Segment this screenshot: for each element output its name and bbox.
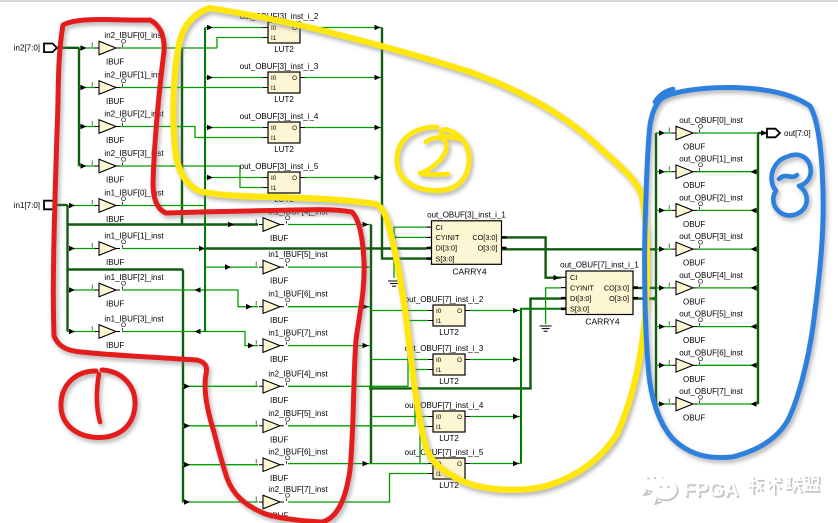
junction arr V4 <box>184 423 190 429</box>
wire in1[6] out <box>288 306 371 308</box>
svg-text:I0: I0 <box>436 308 442 315</box>
junction arr t205 a <box>195 287 201 293</box>
svg-text:I: I <box>91 42 93 49</box>
wire V4 stub <box>182 464 258 466</box>
buffer in1_IBUF[5]_inst <box>255 250 328 286</box>
input port in2[7:0] <box>14 44 57 53</box>
svg-text:IBUF: IBUF <box>106 300 124 309</box>
wire out out_OBUF[3]_inst_i_4 <box>305 127 382 129</box>
LUT2 out_OBUF[3]_inst_i_4 <box>240 112 319 154</box>
svg-text:out_OBUF[7]_inst_i_5: out_OBUF[7]_inst_i_5 <box>405 448 484 457</box>
svg-text:I1: I1 <box>271 35 277 42</box>
wire stub to in2_IBUF[0]_inst <box>79 47 96 49</box>
wire OBUF out wire <box>697 364 758 366</box>
junction arr in1_IBUF[0]_inst <box>69 203 75 209</box>
svg-text:I0: I0 <box>436 414 442 421</box>
svg-text:O: O <box>457 308 462 315</box>
junction arr in1_IBUF[2]_inst <box>69 287 75 293</box>
svg-text:out_OBUF[0]_inst: out_OBUF[0]_inst <box>679 116 743 125</box>
junction arr obuf in <box>659 169 665 175</box>
buffer in1_IBUF[4]_inst <box>255 208 328 244</box>
svg-text:IBUF: IBUF <box>106 176 124 185</box>
wire in1[6] feed jog <box>122 290 258 307</box>
junction arr lutout <box>375 175 381 181</box>
wire out out_OBUF[7]_inst_i_5 <box>470 463 521 465</box>
wire OBUF out wire <box>697 209 758 211</box>
svg-text:DI[3:0]: DI[3:0] <box>570 294 592 303</box>
svg-text:out_OBUF[7]_inst: out_OBUF[7]_inst <box>679 387 743 396</box>
wire O bus carry2 <box>633 297 656 299</box>
junction arr obuf out <box>751 169 757 175</box>
junction arr obuf in <box>659 246 665 252</box>
junction arr lutout <box>375 75 381 81</box>
buffer in2_IBUF[0]_inst <box>91 31 164 67</box>
svg-text:in2_IBUF[4]_inst: in2_IBUF[4]_inst <box>268 369 328 378</box>
svg-text:IBUF: IBUF <box>106 58 124 67</box>
wire OBUF in stub <box>656 364 672 366</box>
wire stub to in1_IBUF[0]_inst <box>68 205 97 207</box>
buffer out_OBUF[4]_inst <box>668 271 743 307</box>
svg-text:out_OBUF[5]_inst: out_OBUF[5]_inst <box>679 310 743 319</box>
wire stub to in1_IBUF[1]_inst <box>68 248 97 250</box>
svg-text:I: I <box>668 204 670 211</box>
svg-text:I0: I0 <box>436 357 442 364</box>
svg-text:OBUF: OBUF <box>683 259 705 268</box>
red annotation loop around IBUF groups <box>53 20 364 523</box>
junction arr V4 <box>184 462 190 468</box>
LUT2 out_OBUF[3]_inst_i_2 <box>240 12 319 54</box>
junction arr in1[5]feed <box>225 264 231 270</box>
wire V4 trunk lower <box>182 270 184 503</box>
svg-text:OBUF: OBUF <box>683 297 705 306</box>
junction arr obuf in <box>659 130 665 136</box>
wire VA trunk <box>370 225 372 464</box>
junction arr lutCout <box>513 308 519 314</box>
red circled 1 <box>61 370 135 438</box>
wire OBUF in stub <box>656 326 672 328</box>
buffer out_OBUF[3]_inst <box>668 232 743 268</box>
node dot O2 join <box>653 297 657 301</box>
wire OBUF in stub <box>656 209 672 211</box>
input port in1[7:0] <box>14 201 57 210</box>
wire stub to in1_IBUF[3]_inst <box>68 331 97 333</box>
svg-text:I0: I0 <box>271 175 277 182</box>
svg-text:OBUF: OBUF <box>683 375 705 384</box>
svg-text:I0: I0 <box>271 25 277 32</box>
wire CO to CI chain <box>502 237 562 277</box>
junction arr I0 <box>207 75 213 81</box>
svg-text:in1_IBUF[3]_inst: in1_IBUF[3]_inst <box>104 315 164 324</box>
blue annotation loop around OBUF column <box>645 87 824 457</box>
wire C3 I1 tap <box>420 427 428 464</box>
buffer out_OBUF[5]_inst <box>668 310 743 346</box>
svg-text:I: I <box>255 261 257 268</box>
buffer in1_IBUF[0]_inst <box>91 189 164 225</box>
wire CO carry2 <box>633 287 656 289</box>
svg-text:in2_IBUF[1]_inst: in2_IBUF[1]_inst <box>104 71 164 80</box>
svg-text:IBUF: IBUF <box>106 97 124 106</box>
red digit 1 <box>97 374 100 422</box>
svg-text:out_OBUF[1]_inst: out_OBUF[1]_inst <box>679 155 743 164</box>
svg-text:I: I <box>255 219 257 226</box>
wire in2[3] to LUT i_5 I1 <box>120 166 263 188</box>
wire OBUF out wire <box>697 403 758 405</box>
wire OBUF in stub <box>656 171 672 173</box>
wire DI bus carry2 <box>371 299 561 389</box>
junction arr obuf out <box>751 246 757 252</box>
svg-text:OBUF: OBUF <box>683 414 705 423</box>
svg-text:OBUF: OBUF <box>683 220 705 229</box>
junction arr in1[6]feed <box>246 304 252 310</box>
svg-text:CARRY4: CARRY4 <box>585 317 620 327</box>
junction arr I0 <box>207 25 213 31</box>
wire in2[7] out <box>288 474 428 503</box>
svg-text:I: I <box>668 359 670 366</box>
LUT2 out_OBUF[7]_inst_i_2 <box>405 295 484 337</box>
svg-text:I: I <box>668 127 670 134</box>
junction arr obuf out <box>751 285 757 291</box>
yellow digit 2 <box>420 138 448 175</box>
wire in2[1] to LUT i_3 I1 <box>120 87 263 89</box>
watermark text FPGA <box>683 479 740 503</box>
svg-text:LUT2: LUT2 <box>439 328 459 337</box>
svg-text:IBUF: IBUF <box>270 355 288 364</box>
svg-text:I0: I0 <box>271 125 277 132</box>
svg-text:LUT2: LUT2 <box>439 481 459 490</box>
wire I0 stub out_OBUF[3]_inst_i_5 <box>205 177 263 179</box>
svg-text:I: I <box>91 82 93 89</box>
wire stub to in2_IBUF[1]_inst <box>79 87 96 89</box>
svg-text:I1: I1 <box>271 135 277 142</box>
junction arr in2_IBUF[2]_inst <box>81 124 87 130</box>
junction arr lutout <box>375 25 381 31</box>
wire in2 trunk V1 <box>78 48 80 166</box>
svg-text:O: O <box>292 125 297 132</box>
svg-text:I: I <box>668 166 670 173</box>
wire OBUF out wire <box>697 248 758 250</box>
wire in1[1] out <box>122 248 205 250</box>
buffer out_OBUF[6]_inst <box>668 348 743 384</box>
svg-text:out_OBUF[3]_inst_i_1: out_OBUF[3]_inst_i_1 <box>427 210 506 219</box>
wire S trunk to CARRY4_2 <box>521 309 561 464</box>
wire V4 trunk upper <box>181 48 183 225</box>
wire I0 stub out_OBUF[3]_inst_i_4 <box>205 127 263 129</box>
node dot cyinit tap <box>392 236 396 240</box>
svg-text:DI[3:0]: DI[3:0] <box>436 244 458 253</box>
frame top border <box>0 0 838 2</box>
buffer in1_IBUF[3]_inst <box>91 315 164 351</box>
junction arr VA top <box>363 222 369 228</box>
buffer in2_IBUF[4]_inst <box>255 369 328 405</box>
svg-text:I: I <box>255 496 257 503</box>
wire out out_OBUF[7]_inst_i_4 <box>470 416 521 418</box>
svg-text:OBUF: OBUF <box>683 143 705 152</box>
svg-text:IBUF: IBUF <box>106 258 124 267</box>
wire stub to in1_IBUF[2]_inst <box>68 289 97 291</box>
junction arr in1[7]feed <box>248 343 254 349</box>
junction arr in1[4]feed <box>228 222 234 228</box>
wire CYINIT2 gnd <box>546 288 561 324</box>
junction arr obuf in <box>659 285 665 291</box>
svg-text:in2[7:0]: in2[7:0] <box>14 44 40 53</box>
svg-text:S[3:0]: S[3:0] <box>436 254 455 263</box>
svg-text:I: I <box>255 459 257 466</box>
wire in2 port to trunk <box>57 47 79 49</box>
svg-text:I1: I1 <box>436 318 442 325</box>
wire CI CYINIT gnd net <box>394 227 427 278</box>
wire CYINIT tap <box>394 236 427 238</box>
wire out out_OBUF[7]_inst_i_2 <box>470 310 521 312</box>
svg-text:I: I <box>668 398 670 405</box>
svg-text:IBUF: IBUF <box>270 316 288 325</box>
wire in2[5] out <box>288 370 428 426</box>
svg-text:I: I <box>668 243 670 250</box>
svg-text:IBUF: IBUF <box>270 234 288 243</box>
svg-text:out_OBUF[6]_inst: out_OBUF[6]_inst <box>679 348 743 357</box>
svg-text:IBUF: IBUF <box>106 215 124 224</box>
svg-text:O: O <box>457 414 462 421</box>
wire OBUF out trunk <box>757 133 759 404</box>
CARRY4 out_OBUF[3]_inst_i_1 <box>427 210 507 276</box>
junction arr in2_IBUF[3]_inst <box>81 163 87 169</box>
svg-text:out[7:0]: out[7:0] <box>784 129 811 138</box>
wire S trunk to CARRY4_1 <box>382 28 427 259</box>
wire I0 trunk <box>204 28 206 332</box>
wire VA to C2 I0 <box>371 359 428 361</box>
wire VA to C3 I0 <box>371 416 428 418</box>
junction arr VA r2 <box>363 264 369 270</box>
junction arr DI1 <box>199 246 205 252</box>
blue stroke start tail <box>655 89 673 102</box>
junction arr obuf in <box>659 363 665 369</box>
wire out out_OBUF[3]_inst_i_3 <box>305 77 382 79</box>
svg-text:out_OBUF[7]_inst_i_1: out_OBUF[7]_inst_i_1 <box>560 261 639 270</box>
junction arr VA r3 <box>363 304 369 310</box>
watermark hanzi strokes <box>750 478 765 494</box>
svg-text:LUT2: LUT2 <box>274 45 294 54</box>
wire in1[5] out <box>288 266 371 268</box>
junction arr in1_IBUF[3]_inst <box>69 329 75 335</box>
junction arr VA r4 <box>363 343 369 349</box>
buffer in2_IBUF[2]_inst <box>91 110 164 146</box>
junction arr obuf out <box>751 208 757 214</box>
wire in2[6] out <box>288 463 428 465</box>
junction arr port feed <box>761 130 767 136</box>
svg-text:CI: CI <box>570 273 577 282</box>
wire out out_OBUF[3]_inst_i_5 <box>305 177 382 179</box>
svg-text:in2_IBUF[0]_inst: in2_IBUF[0]_inst <box>104 31 164 40</box>
junction arr obuf in <box>659 324 665 330</box>
wire in1 port to trunk <box>57 204 68 206</box>
svg-text:out_OBUF[4]_inst: out_OBUF[4]_inst <box>679 271 743 280</box>
wire DI bus carry1 <box>205 247 427 249</box>
wire in1 trunk V2 <box>66 205 68 332</box>
svg-text:in1[7:0]: in1[7:0] <box>14 201 40 210</box>
wire OBUF out wire <box>697 326 758 328</box>
buffer in2_IBUF[1]_inst <box>91 71 164 107</box>
svg-text:O[3:0]: O[3:0] <box>609 294 629 303</box>
junction arr lutCout <box>513 357 519 363</box>
svg-text:IBUF: IBUF <box>270 474 288 483</box>
LUT2 out_OBUF[3]_inst_i_3 <box>240 62 319 104</box>
svg-text:in1_IBUF[2]_inst: in1_IBUF[2]_inst <box>104 273 164 282</box>
svg-text:I1: I1 <box>271 185 277 192</box>
svg-text:I: I <box>91 243 93 250</box>
svg-text:O: O <box>292 75 297 82</box>
svg-text:S[3:0]: S[3:0] <box>570 305 589 314</box>
junction arr V4 <box>184 499 190 505</box>
buffer in2_IBUF[3]_inst <box>91 149 164 185</box>
svg-text:LUT2: LUT2 <box>439 434 459 443</box>
svg-text:O: O <box>292 175 297 182</box>
blue squiggle 3 <box>772 155 811 216</box>
svg-text:in1_IBUF[1]_inst: in1_IBUF[1]_inst <box>104 232 164 241</box>
ground G2 <box>540 326 552 331</box>
svg-text:CI: CI <box>436 223 443 232</box>
svg-text:I1: I1 <box>436 424 442 431</box>
node dot DI2 join <box>369 387 373 391</box>
wire stub to in2_IBUF[3]_inst <box>79 165 96 167</box>
buffer in2_IBUF[6]_inst <box>255 448 328 484</box>
LUT2 out_OBUF[3]_inst_i_5 <box>240 162 319 204</box>
wire in2[0] out run <box>120 47 217 49</box>
wire OBUF in stub <box>656 248 672 250</box>
junction arr obuf in <box>659 208 665 214</box>
svg-text:in2_IBUF[7]_inst: in2_IBUF[7]_inst <box>268 485 328 494</box>
junction arr obuf out <box>751 401 757 407</box>
junction arr in2_IBUF[1]_inst <box>81 85 87 91</box>
buffer out_OBUF[1]_inst <box>668 155 743 191</box>
svg-text:IBUF: IBUF <box>270 277 288 286</box>
junction arr in2_IBUF[0]_inst <box>81 45 87 51</box>
svg-text:OBUF: OBUF <box>683 336 705 345</box>
svg-text:OBUF: OBUF <box>683 181 705 190</box>
wire V4 stub <box>182 501 258 503</box>
junction arr t205 b <box>195 329 201 335</box>
wire V4 stub <box>182 425 258 427</box>
wire in1[7] out <box>288 345 371 347</box>
svg-text:in1_IBUF[6]_inst: in1_IBUF[6]_inst <box>268 290 328 299</box>
wire out port wire <box>758 132 767 134</box>
svg-text:out_OBUF[3]_inst_i_5: out_OBUF[3]_inst_i_5 <box>240 162 319 171</box>
svg-text:IBUF: IBUF <box>270 435 288 444</box>
svg-text:I: I <box>91 326 93 333</box>
buffer in1_IBUF[6]_inst <box>255 290 328 326</box>
junction arr obuf in <box>659 401 665 407</box>
svg-text:I: I <box>91 200 93 207</box>
svg-text:I: I <box>255 340 257 347</box>
wire V4 stub <box>182 385 258 387</box>
junction arr in1_IBUF[1]_inst <box>69 246 75 252</box>
output port out[7:0] <box>767 129 811 138</box>
junction arr V4 <box>184 384 190 390</box>
junction arr I0 <box>207 175 213 181</box>
junction arr obuf out <box>751 324 757 330</box>
svg-text:out_OBUF[3]_inst: out_OBUF[3]_inst <box>679 232 743 241</box>
svg-text:out_OBUF[7]_inst_i_3: out_OBUF[7]_inst_i_3 <box>405 344 484 353</box>
wire in1[0] out <box>120 205 205 207</box>
yellow circled 2 <box>397 127 469 191</box>
wire OBUF out wire <box>697 171 758 173</box>
svg-text:out_OBUF[2]_inst: out_OBUF[2]_inst <box>679 193 743 202</box>
wire O bus carry1 <box>502 248 657 250</box>
wire OBUF in stub <box>656 132 672 134</box>
junction arr obuf out <box>751 363 757 369</box>
wire OBUF feed trunk <box>655 133 657 404</box>
junction arr O1 row <box>645 247 651 253</box>
wire out out_OBUF[3]_inst_i_2 <box>305 27 382 29</box>
junction arr CI2 <box>554 275 560 281</box>
watermark logo bubbles <box>642 472 678 504</box>
wire in1[5] feed <box>205 266 258 268</box>
buffer in1_IBUF[1]_inst <box>91 232 164 268</box>
junction arr lutCout <box>513 461 519 467</box>
buffer in2_IBUF[7]_inst <box>255 485 328 521</box>
wire in1[7] feed jog <box>122 332 258 346</box>
buffer out_OBUF[2]_inst <box>668 193 743 229</box>
buffer in1_IBUF[2]_inst <box>91 273 164 309</box>
junction arr lutCout <box>513 414 519 420</box>
wire I0 stub out_OBUF[3]_inst_i_3 <box>205 77 263 79</box>
junction arr VA bot <box>363 461 369 467</box>
wire OBUF in stub <box>656 403 672 405</box>
LUT2 out_OBUF[7]_inst_i_3 <box>405 344 484 386</box>
svg-text:I: I <box>91 160 93 167</box>
svg-text:in2_IBUF[5]_inst: in2_IBUF[5]_inst <box>268 409 328 418</box>
wire OBUF out wire <box>697 132 758 134</box>
svg-text:I: I <box>255 301 257 308</box>
svg-text:in1_IBUF[5]_inst: in1_IBUF[5]_inst <box>268 250 328 259</box>
buffer in2_IBUF[5]_inst <box>255 409 328 445</box>
svg-text:out_OBUF[3]_inst_i_3: out_OBUF[3]_inst_i_3 <box>240 62 319 71</box>
svg-text:I: I <box>255 420 257 427</box>
LUT2 out_OBUF[7]_inst_i_5 <box>405 448 484 490</box>
wire out out_OBUF[7]_inst_i_3 <box>470 359 521 361</box>
svg-text:out_OBUF[7]_inst_i_2: out_OBUF[7]_inst_i_2 <box>405 295 484 304</box>
wire I0 stub out_OBUF[3]_inst_i_2 <box>205 27 263 29</box>
svg-text:LUT2: LUT2 <box>439 377 459 386</box>
buffer in1_IBUF[7]_inst <box>255 329 328 365</box>
svg-text:CO[3:0]: CO[3:0] <box>472 233 497 242</box>
svg-text:I1: I1 <box>271 85 277 92</box>
svg-text:IBUF: IBUF <box>106 136 124 145</box>
wire OBUF in stub <box>656 287 672 289</box>
wire VA to C1 I0 <box>371 310 428 312</box>
junction arr I0 <box>207 125 213 131</box>
svg-text:I: I <box>91 284 93 291</box>
svg-text:O: O <box>457 461 462 468</box>
buffer out_OBUF[0]_inst <box>668 116 743 152</box>
svg-text:in2_IBUF[6]_inst: in2_IBUF[6]_inst <box>268 448 328 457</box>
svg-text:I0: I0 <box>271 75 277 82</box>
wire OBUF out wire <box>697 287 758 289</box>
svg-text:I: I <box>668 282 670 289</box>
svg-text:IBUF: IBUF <box>106 341 124 350</box>
wire in1[4] feed bus <box>68 223 259 225</box>
svg-text:I1: I1 <box>436 471 442 478</box>
wire in1[4] out to VA <box>288 224 371 226</box>
svg-text:I1: I1 <box>436 367 442 374</box>
svg-text:O[3:0]: O[3:0] <box>478 244 498 253</box>
LUT2 out_OBUF[7]_inst_i_4 <box>405 401 484 443</box>
svg-text:LUT2: LUT2 <box>274 145 294 154</box>
svg-text:IBUF: IBUF <box>270 396 288 405</box>
svg-text:I: I <box>255 380 257 387</box>
wire in2[0] to LUT i_2 I1 <box>217 38 263 49</box>
yellow annotation loop around LUT2 groups <box>173 8 647 490</box>
ground G1 <box>388 281 400 286</box>
buffer out_OBUF[7]_inst <box>668 387 743 423</box>
